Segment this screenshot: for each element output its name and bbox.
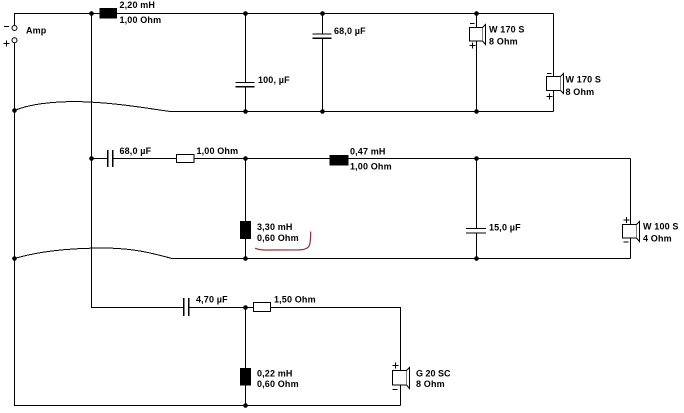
speaker SPK4 cone: [407, 368, 410, 389]
svg-text:G 20 SC: G 20 SC: [416, 368, 451, 378]
wire 15uF branch lower: [476, 234, 478, 259]
node midrange return x245: [243, 256, 248, 261]
node woofer return x476: [474, 109, 479, 114]
node midrange x245: [243, 156, 248, 161]
inductor L3 3,30mH: [240, 221, 251, 239]
svg-text:2,20 mH: 2,20 mH: [120, 0, 156, 10]
svg-text:4,70 µF: 4,70 µF: [196, 294, 228, 304]
node midrange return x476: [474, 256, 479, 261]
svg-text:3,30 mH: 3,30 mH: [257, 222, 293, 232]
speaker SPK4 G20SC box: [393, 371, 407, 386]
node bottom rail x245: [243, 403, 248, 408]
inductor L4 0,22mH: [240, 368, 251, 386]
Amp terminal plus: [12, 38, 17, 43]
wire midrange row after C3: [113, 158, 631, 160]
wire 100uF branch: [245, 14, 247, 83]
inductor L1 2,20mH: [100, 8, 118, 19]
wire midrange row: [92, 158, 108, 160]
svg-text:1,50 Ohm: 1,50 Ohm: [274, 295, 316, 305]
wire 15uF branch: [476, 159, 478, 229]
wire 100uF branch lower: [245, 87, 247, 112]
Amp terminal minus: [12, 26, 17, 31]
node midrange x476: [474, 156, 479, 161]
svg-text:68,0 µF: 68,0 µF: [120, 146, 152, 156]
svg-text:68,0 µF: 68,0 µF: [334, 26, 366, 36]
svg-text:8 Ohm: 8 Ohm: [566, 87, 595, 97]
wire 3.3mH branch: [245, 159, 247, 259]
capacitor C2 68uF plates: [313, 34, 332, 38]
svg-text:100, µF: 100, µF: [258, 75, 290, 85]
node top junction x245: [243, 11, 248, 16]
annotation red underline hook: [255, 232, 311, 251]
wire vertical x=91 lower + tweeter feed: [92, 159, 184, 308]
speaker SPK2 W170S box: [547, 77, 561, 91]
SPK1 minus mark: [470, 23, 475, 25]
resistor R1 1,00 Ohm: [177, 155, 195, 163]
wire woofer return (curved): [15, 102, 554, 112]
capacitor C3 68uF midrange plates: [108, 150, 113, 167]
svg-text:0,22 mH: 0,22 mH: [257, 368, 293, 378]
wire 0.22mH branch: [245, 308, 247, 406]
SPK2 plus mark: [547, 94, 553, 100]
svg-text:8 Ohm: 8 Ohm: [489, 36, 518, 46]
wire midrange return (curved): [15, 248, 631, 259]
wire vertical x=91: [91, 14, 93, 159]
node top junction x322: [320, 11, 325, 16]
node woofer return left: [12, 108, 17, 113]
wire left + rail: [15, 43, 401, 406]
resistor R2 1,50 Ohm: [254, 303, 271, 312]
svg-text:8 Ohm: 8 Ohm: [416, 379, 445, 389]
wire woofer2 branch: [553, 14, 555, 112]
capacitor C1 100uF plates: [236, 83, 255, 87]
wire 68uF branch lower: [322, 39, 324, 112]
wire tweeter row right of C4: [189, 308, 401, 406]
svg-text:W 170 S: W 170 S: [489, 25, 525, 35]
speaker SPK2 cone: [561, 74, 564, 94]
wire top rail: [15, 14, 554, 26]
wire midrange speaker branch: [630, 159, 632, 259]
SPK4 minus mark: [393, 389, 398, 391]
svg-text:W 170 S: W 170 S: [566, 74, 602, 84]
svg-text:1,00 Ohm: 1,00 Ohm: [120, 15, 162, 25]
Amp plus sign: [4, 41, 10, 47]
svg-text:1,00 Ohm: 1,00 Ohm: [197, 146, 239, 156]
svg-text:0,60 Ohm: 0,60 Ohm: [257, 233, 299, 243]
speaker SPK3 W100S box: [623, 225, 637, 239]
capacitor C4 4,70uF plates: [184, 298, 189, 316]
wire 68uF branch: [322, 14, 324, 35]
svg-text:0,60 Ohm: 0,60 Ohm: [257, 379, 299, 389]
svg-text:Amp: Amp: [26, 26, 47, 36]
Amp minus sign: [4, 26, 9, 28]
node midrange in: [89, 156, 94, 161]
svg-text:15,0 µF: 15,0 µF: [489, 222, 521, 232]
node midrange return left: [12, 256, 17, 261]
SPK1 plus mark: [470, 43, 476, 49]
node top junction x476: [474, 11, 479, 16]
node tweeter junction: [243, 305, 248, 310]
svg-text:1,00 Ohm: 1,00 Ohm: [350, 162, 392, 172]
SPK3 plus mark: [624, 217, 630, 223]
node woofer return x245: [243, 109, 248, 114]
speaker SPK3 cone: [637, 222, 640, 242]
svg-text:0,47 mH: 0,47 mH: [350, 147, 386, 157]
SPK2 minus mark: [547, 73, 552, 75]
speaker SPK1 cone: [483, 25, 486, 45]
SPK4 plus mark: [393, 363, 399, 369]
wire woofer1 branch: [476, 14, 478, 112]
inductor L2 0,47mH: [330, 155, 349, 166]
speaker SPK1 W170S box: [470, 28, 483, 42]
SPK3 minus mark: [624, 241, 629, 243]
node woofer return x322: [320, 109, 325, 114]
svg-text:W 100 S: W 100 S: [643, 222, 679, 232]
svg-text:4 Ohm: 4 Ohm: [643, 234, 672, 244]
capacitor C5 15uF plates: [466, 229, 486, 234]
node top junction x91: [89, 11, 94, 16]
